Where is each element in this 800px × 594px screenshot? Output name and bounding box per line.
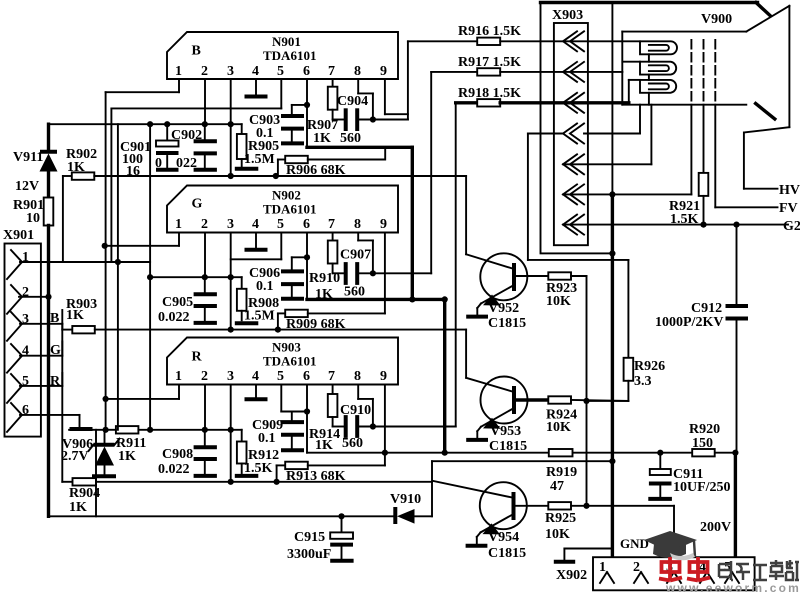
- svg-text:C908: C908: [162, 447, 193, 462]
- capacitor C901: [120, 124, 179, 179]
- svg-text:X903: X903: [552, 8, 583, 23]
- ground under X901 pin6: [70, 427, 93, 431]
- svg-text:V953: V953: [490, 424, 521, 439]
- connector X901: [3, 228, 41, 437]
- watermark dark characters: [719, 560, 799, 580]
- pin 2 N903: [201, 369, 208, 430]
- node dot R924/riser: [583, 398, 589, 404]
- wire G2 line: [563, 224, 788, 226]
- resistor R914: [309, 394, 340, 453]
- svg-text:B: B: [192, 44, 201, 59]
- resistor R921: [669, 173, 708, 227]
- svg-text:R917 1.5K: R917 1.5K: [458, 55, 521, 70]
- svg-text:G: G: [192, 197, 203, 212]
- svg-text:N901: N901: [272, 34, 301, 49]
- node dot C912/G2: [733, 222, 739, 228]
- wire B output: [373, 41, 408, 119]
- node dot chevron6/riser: [609, 191, 615, 197]
- pin 3 N902: [227, 217, 234, 330]
- capacitor C903: [249, 105, 307, 142]
- capacitor C908: [158, 430, 217, 477]
- svg-text:2.7V: 2.7V: [61, 449, 89, 464]
- capacitor C907: [333, 248, 373, 300]
- svg-text:560: 560: [342, 436, 363, 451]
- ground under C908: [194, 474, 217, 478]
- svg-text:FV: FV: [779, 201, 798, 216]
- CRT grid dashes column 1: [690, 40, 692, 102]
- X901 pin 6: [7, 403, 80, 432]
- svg-text:N903: N903: [272, 340, 301, 355]
- svg-text:R: R: [192, 350, 203, 365]
- ground under C903: [281, 141, 304, 145]
- wire grid 1 lead: [690, 105, 692, 195]
- capacitor C912: [655, 225, 748, 453]
- X901 pin 1: [7, 250, 150, 279]
- CRT grid dashes column 2: [703, 40, 705, 102]
- node junction dots G: [102, 243, 448, 333]
- diode V911: [13, 124, 58, 197]
- wire rail B: [49, 123, 242, 125]
- connector X902: [556, 557, 755, 590]
- ground under C902: [194, 168, 217, 172]
- wire signal line G: [95, 329, 466, 331]
- svg-text:V911: V911: [13, 150, 43, 165]
- svg-text:5: 5: [277, 369, 284, 384]
- svg-text:1K: 1K: [118, 449, 136, 464]
- pin 4 N901: [245, 64, 268, 97]
- pin 1 N901: [106, 64, 182, 92]
- capacitor C915: [287, 516, 353, 562]
- svg-text:C902: C902: [171, 128, 202, 143]
- svg-text:4: 4: [252, 217, 259, 232]
- svg-text:8: 8: [354, 217, 361, 232]
- resistor R905: [237, 124, 279, 167]
- svg-text:3: 3: [227, 217, 234, 232]
- resistor R909: [278, 310, 385, 332]
- svg-text:1K: 1K: [69, 500, 87, 515]
- X903 chevron pin 7: [563, 215, 584, 235]
- X903 chevron pin 5: [563, 105, 651, 175]
- svg-text:560: 560: [340, 131, 361, 146]
- svg-text:5: 5: [277, 64, 284, 79]
- svg-text:C912: C912: [691, 301, 722, 316]
- ground under V906: [92, 474, 116, 478]
- wire 12V riser x96: [95, 430, 97, 517]
- X902 pin 4: [699, 560, 714, 583]
- transistor V953 C1815: [466, 330, 527, 454]
- svg-text:1: 1: [599, 560, 606, 575]
- svg-text:2: 2: [201, 369, 208, 384]
- capacitor C909: [252, 412, 304, 449]
- svg-text:0: 0: [155, 156, 162, 171]
- wire bottom supply line: [49, 515, 395, 517]
- pin 9 N902: [380, 217, 387, 313]
- svg-text:1.5K: 1.5K: [670, 212, 699, 227]
- svg-text:V900: V900: [701, 12, 732, 27]
- X903 chevron pin 6: [563, 184, 691, 204]
- svg-text:R909 68K: R909 68K: [286, 317, 346, 332]
- pin 2 N901: [201, 64, 208, 124]
- wire signal line R: [96, 481, 432, 483]
- svg-text:6: 6: [303, 217, 310, 232]
- X901 pin 2: [7, 285, 52, 314]
- X901 pin 5: [7, 374, 62, 403]
- ground under R905: [235, 167, 258, 171]
- wire grid 3 lead / FV: [715, 105, 797, 216]
- resistor R907: [307, 87, 338, 146]
- pin 1 N903: [106, 369, 182, 399]
- node junction dots B: [115, 102, 376, 265]
- svg-text:0.1: 0.1: [256, 279, 274, 294]
- pin 7 N903: [328, 369, 335, 394]
- svg-text:G2: G2: [783, 219, 800, 234]
- svg-text:8: 8: [354, 369, 361, 384]
- svg-text:10K: 10K: [545, 527, 570, 542]
- svg-text:8: 8: [354, 64, 361, 79]
- X903 chevron pin 2: [563, 62, 584, 82]
- svg-text:7: 7: [328, 369, 335, 384]
- svg-text:X902: X902: [556, 568, 587, 583]
- capacitor C902: [155, 124, 217, 171]
- resistor R926: [587, 260, 666, 401]
- X903 chevron pin 3: [563, 93, 584, 113]
- svg-text:R913 68K: R913 68K: [286, 469, 346, 484]
- pin 7 N902: [328, 217, 335, 241]
- svg-text:C907: C907: [340, 248, 371, 263]
- ground under R908: [235, 321, 258, 325]
- op-amp N903 TDA6101: [167, 338, 398, 385]
- X901 pin 4: [7, 344, 62, 373]
- resistor R918: [456, 80, 640, 107]
- pin 9 N903: [380, 369, 387, 465]
- svg-text:3: 3: [227, 369, 234, 384]
- node B cell: [50, 310, 62, 326]
- op-amp N902 TDA6101: [167, 186, 398, 233]
- svg-text:0.1: 0.1: [258, 431, 276, 446]
- svg-text:C905: C905: [162, 295, 193, 310]
- capacitor C905: [158, 277, 217, 325]
- svg-text:1: 1: [175, 369, 182, 384]
- svg-text:4: 4: [252, 64, 259, 79]
- svg-text:GND: GND: [620, 536, 649, 551]
- pin 1 N902: [105, 217, 182, 246]
- svg-text:V952: V952: [488, 301, 519, 316]
- pin 3 N901: [227, 64, 234, 176]
- resistor R924: [514, 396, 628, 435]
- resistor R906: [278, 156, 385, 178]
- ground under C911: [648, 497, 672, 501]
- diode V910: [390, 492, 432, 524]
- pin 8 N901: [354, 64, 373, 120]
- pin 5 N901: [111, 64, 284, 108]
- resistor R916: [408, 24, 640, 45]
- node G cell: [50, 342, 62, 359]
- svg-text:C1815: C1815: [488, 546, 526, 561]
- pin 6 N903: [303, 369, 310, 453]
- pin 6 N901: [303, 64, 310, 147]
- svg-text:9: 9: [380, 369, 387, 384]
- CRT grid dashes column 3: [714, 40, 716, 102]
- node dot box corner: [609, 250, 615, 256]
- pin 2 N902: [201, 217, 208, 277]
- svg-text:R906 68K: R906 68K: [286, 163, 346, 178]
- CRT gun 3: [640, 80, 676, 93]
- svg-text:1: 1: [175, 64, 182, 79]
- node GND: [554, 536, 649, 562]
- wire rail R left end: [69, 429, 104, 431]
- connector X903 inner box: [554, 23, 588, 245]
- svg-text:47: 47: [550, 479, 564, 494]
- svg-text:C1815: C1815: [489, 439, 527, 454]
- svg-text:2: 2: [633, 560, 640, 575]
- svg-text:0.1: 0.1: [256, 126, 274, 141]
- svg-text:5: 5: [277, 217, 284, 232]
- svg-text:TDA6101: TDA6101: [263, 202, 316, 217]
- svg-text:3.3: 3.3: [634, 374, 652, 389]
- svg-text:560: 560: [344, 285, 365, 300]
- ground under R912: [235, 474, 258, 478]
- zener V906: [61, 430, 120, 474]
- CRT gun 1: [640, 41, 677, 54]
- wire input chain vertical: [61, 324, 63, 482]
- ground under C915: [330, 559, 353, 563]
- svg-text:C910: C910: [340, 403, 371, 418]
- svg-text:6: 6: [303, 369, 310, 384]
- capacitor C904: [333, 94, 373, 146]
- X902 pin 2: [633, 560, 648, 583]
- svg-text:10K: 10K: [546, 420, 571, 435]
- svg-text:C904: C904: [337, 94, 368, 109]
- svg-text:1.5M: 1.5M: [244, 152, 275, 167]
- svg-text:R919: R919: [546, 465, 577, 480]
- pin 8 N902: [354, 217, 373, 273]
- resistor R917: [431, 55, 640, 76]
- node junction dots R: [103, 396, 448, 485]
- svg-text:1.5K: 1.5K: [244, 461, 273, 476]
- X902 pin 3: [666, 560, 681, 583]
- transistor V954 C1815: [433, 481, 527, 561]
- resistor R903: [62, 297, 97, 333]
- wire HV lead: [744, 133, 800, 199]
- svg-text:10UF/250: 10UF/250: [673, 480, 731, 495]
- svg-text:2: 2: [201, 217, 208, 232]
- node dot riser/461: [609, 458, 615, 464]
- wire pin6 G jog thick: [307, 299, 445, 452]
- X903 chevron pin 4: [528, 105, 640, 260]
- wire G output: [373, 72, 431, 273]
- op-amp N901 TDA6101: [167, 32, 398, 79]
- svg-text:7: 7: [328, 217, 335, 232]
- resistor R911: [116, 426, 146, 464]
- svg-text:N902: N902: [272, 188, 301, 203]
- wire ground riser x150: [149, 124, 151, 430]
- svg-text:3300uF: 3300uF: [287, 547, 331, 562]
- svg-text:www.eeworm.com: www.eeworm.com: [665, 581, 800, 594]
- svg-text:X901: X901: [3, 228, 34, 243]
- svg-text:V954: V954: [488, 530, 519, 545]
- svg-text:16: 16: [126, 164, 140, 179]
- svg-text:10K: 10K: [546, 294, 571, 309]
- wire riser x111 jog drop: [110, 108, 112, 262]
- svg-text:3: 3: [227, 64, 234, 79]
- capacitor C911: [649, 453, 731, 497]
- node dot bus corner: [732, 450, 738, 456]
- X903 chevron pin 1: [563, 31, 584, 51]
- resistor R902: [63, 147, 97, 262]
- wire pin6 B jog thick: [307, 147, 412, 299]
- pin 5 N903: [277, 369, 307, 412]
- X901 pin 3: [7, 312, 62, 341]
- svg-text:R926: R926: [634, 359, 665, 374]
- ground under C906: [281, 297, 304, 301]
- pin 3 N903: [227, 369, 234, 482]
- X902 pin 5: [724, 560, 739, 583]
- svg-text:1: 1: [175, 217, 182, 232]
- pin 4 N902: [245, 217, 268, 250]
- wire R output: [373, 103, 456, 427]
- resistor R920: [689, 422, 720, 456]
- svg-text:0.022: 0.022: [158, 462, 190, 477]
- svg-text:6: 6: [303, 64, 310, 79]
- svg-text:1K: 1K: [313, 131, 331, 146]
- pin 9 N901: [380, 64, 408, 160]
- node R cell: [50, 373, 62, 389]
- resistor R913: [277, 462, 385, 484]
- wire V954 collector net: [432, 461, 612, 516]
- resistor R904: [62, 478, 100, 515]
- node dot C911/bus: [657, 450, 663, 456]
- wire riser x118: [117, 124, 119, 430]
- watermark red characters: [659, 557, 710, 581]
- wire signal line B: [94, 175, 466, 177]
- resistor R912: [237, 430, 279, 476]
- svg-text:R920: R920: [689, 422, 720, 437]
- svg-text:0.022: 0.022: [158, 310, 190, 325]
- resistor R925: [514, 502, 675, 542]
- CRT V900 envelope: [541, 3, 790, 133]
- svg-text:C1815: C1815: [488, 316, 526, 331]
- svg-text:1K: 1K: [315, 438, 333, 453]
- pin 4 N903: [245, 369, 268, 399]
- pin 8 N903: [354, 369, 373, 427]
- svg-text:2: 2: [201, 64, 208, 79]
- X902 pin 1: [599, 560, 614, 583]
- wire gun heater links: [648, 54, 650, 104]
- svg-text:TDA6101: TDA6101: [263, 48, 316, 63]
- wire 200V bus: [307, 452, 735, 454]
- wire rail R (R911 inline, drawn in left section): [105, 429, 242, 431]
- svg-text:9: 9: [380, 217, 387, 232]
- node dot C915: [338, 513, 344, 519]
- svg-text:G: G: [50, 343, 61, 358]
- resistor R908: [237, 277, 279, 323]
- svg-text:TDA6101: TDA6101: [263, 354, 316, 369]
- capacitor C906: [249, 257, 307, 297]
- svg-text:HV: HV: [779, 183, 800, 198]
- svg-text:4: 4: [252, 369, 259, 384]
- wire X902 pin4 drop: [673, 506, 675, 557]
- svg-text:R925: R925: [545, 511, 576, 526]
- svg-text:1000P/2KV: 1000P/2KV: [655, 315, 723, 330]
- connector X903 outer box: [541, 3, 613, 254]
- resistor R919: [546, 449, 577, 494]
- svg-text:200V: 200V: [700, 520, 731, 535]
- capacitor C910: [333, 403, 373, 451]
- svg-text:9: 9: [380, 64, 387, 79]
- resistor R910: [309, 241, 340, 303]
- pin 7 N901: [328, 64, 335, 87]
- svg-text:C915: C915: [294, 530, 325, 545]
- wire rail G: [150, 276, 242, 278]
- wire feedback riser x105: [105, 92, 107, 430]
- svg-text:R916 1.5K: R916 1.5K: [458, 24, 521, 39]
- wire grid 2 lead: [703, 105, 705, 173]
- wire X902 pin2 riser thick: [611, 194, 614, 557]
- svg-text:150: 150: [692, 436, 713, 451]
- ground under C901: [156, 168, 179, 172]
- transistor V952 C1815: [466, 176, 527, 331]
- resistor R923: [514, 272, 587, 506]
- CRT gun 2: [640, 62, 676, 75]
- svg-text:R918 1.5K: R918 1.5K: [458, 86, 521, 101]
- resistor R901: [13, 198, 53, 517]
- svg-text:1K: 1K: [67, 160, 85, 175]
- watermark graduation cap: [644, 531, 697, 560]
- node dot R921/G2: [700, 222, 706, 228]
- ground under C905: [194, 321, 217, 325]
- pin 5 N902: [231, 217, 284, 259]
- svg-text:7: 7: [328, 64, 335, 79]
- svg-text:V910: V910: [390, 492, 421, 507]
- wire 200V drop: [700, 453, 735, 558]
- svg-text:10: 10: [26, 211, 40, 226]
- svg-text:R: R: [50, 374, 61, 389]
- svg-text:B: B: [50, 311, 59, 326]
- svg-text:12V: 12V: [15, 179, 39, 194]
- node dot R925/riser: [583, 503, 589, 509]
- ground under C909: [281, 448, 304, 452]
- pin 6 N902: [303, 217, 310, 299]
- svg-text:1K: 1K: [66, 308, 84, 323]
